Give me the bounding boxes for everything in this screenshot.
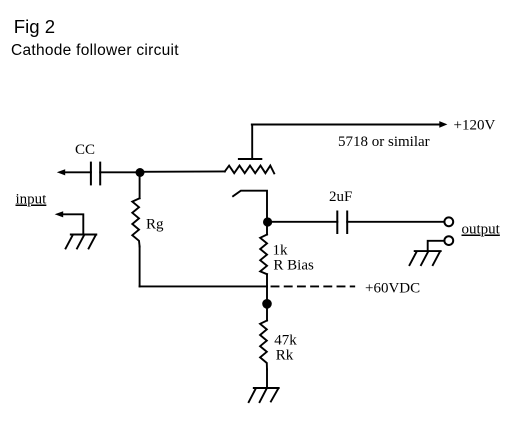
wire: input to CC bbox=[65, 171, 91, 173]
wire: output return to ground bbox=[428, 241, 445, 251]
tube U1 grid zigzag bbox=[225, 166, 274, 174]
svg-text:+120V: +120V bbox=[454, 118, 496, 134]
svg-text:47k: 47k bbox=[274, 333, 297, 349]
output terminal (return) bbox=[444, 236, 453, 245]
wire: CC to node A bbox=[100, 171, 140, 173]
node C junction dot (bias tap) bbox=[262, 299, 272, 309]
capacitor CC plates bbox=[90, 163, 92, 185]
svg-text:input: input bbox=[16, 192, 48, 208]
wire: plate lead from rail bbox=[251, 125, 253, 159]
wire: 2uF to output terminal bbox=[347, 221, 444, 223]
node B junction dot (cathode / output) bbox=[263, 217, 272, 226]
wire: R Bias to node C bbox=[266, 274, 268, 320]
wire: Rk to ground bbox=[266, 369, 268, 388]
dashed line to +60VDC bbox=[272, 285, 355, 287]
chassis ground (Rk) bbox=[254, 387, 279, 389]
svg-text:Rg: Rg bbox=[146, 217, 164, 233]
resistor R Bias 1k bbox=[266, 222, 268, 235]
wire: +120V supply rail bbox=[252, 124, 439, 126]
svg-text:1k: 1k bbox=[273, 243, 289, 259]
tube U1 plate bar bbox=[239, 158, 261, 160]
arrowhead input signal bbox=[57, 169, 65, 175]
tube U1 cathode bbox=[233, 191, 267, 222]
node A junction dot (grid / Rg) bbox=[136, 168, 145, 177]
wire: cathode node to 2uF bbox=[268, 221, 338, 223]
svg-text:Fig 2: Fig 2 bbox=[14, 16, 55, 37]
svg-text:R Bias: R Bias bbox=[273, 258, 314, 274]
svg-text:Rk: Rk bbox=[276, 348, 294, 364]
svg-text:2uF: 2uF bbox=[329, 189, 352, 205]
svg-text:+60VDC: +60VDC bbox=[365, 281, 420, 297]
arrowhead input ground bbox=[55, 211, 64, 217]
chassis ground (input) bbox=[71, 234, 97, 236]
arrowhead +120V bbox=[439, 121, 447, 128]
capacitor 2uF plates bbox=[336, 212, 338, 234]
wire: Rg bottom to bias node bbox=[140, 285, 267, 287]
svg-text:output: output bbox=[462, 222, 501, 238]
wire: input ground stub bbox=[63, 214, 83, 234]
chassis ground (output) bbox=[415, 250, 441, 252]
wire: grid lead from node A bbox=[140, 170, 225, 172]
resistor Rk 47k bbox=[260, 321, 267, 370]
resistor Rg bbox=[139, 173, 141, 199]
svg-text:5718 or similar: 5718 or similar bbox=[338, 134, 430, 150]
svg-text:CC: CC bbox=[75, 142, 95, 158]
svg-text:Cathode follower circuit: Cathode follower circuit bbox=[11, 42, 179, 59]
output terminal (hot) bbox=[444, 217, 453, 226]
